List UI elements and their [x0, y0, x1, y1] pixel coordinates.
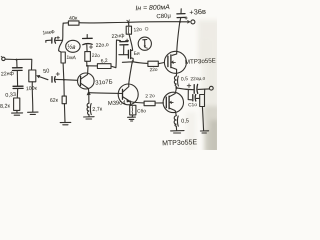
wire mid node horizontal — [122, 62, 147, 64]
output terminal — [209, 86, 213, 90]
ground under lower mosfet — [171, 131, 184, 133]
svg-text:2 2о: 2 2о — [145, 93, 155, 99]
wire zobel R to ground — [202, 107, 203, 131]
wire top rail right — [129, 21, 180, 24]
wire collector node to 6.2 — [87, 65, 98, 67]
svg-text:22о,о: 22о,о — [96, 42, 109, 49]
resistor 2.7k (squiggle) — [87, 103, 103, 115]
potentiometer 100k — [26, 70, 38, 92]
svg-text:Би: Би — [134, 51, 140, 57]
wire top rail left segment — [63, 22, 68, 24]
ground under 560 — [128, 117, 136, 121]
svg-text:+36в: +36в — [189, 7, 206, 17]
svg-text:6,2: 6,2 — [100, 58, 108, 65]
node output junction — [175, 87, 177, 89]
ground under 8.2k — [12, 113, 23, 115]
resistor 8.2k — [0, 98, 20, 110]
capacitor 220.0 bootstrap — [83, 35, 109, 50]
svg-text:Iн = 800мА: Iн = 800мА — [135, 4, 170, 12]
wire output — [177, 88, 194, 90]
svg-text:62к: 62к — [50, 98, 59, 104]
pot wiper arrow — [39, 76, 48, 79]
wire node to 62k — [63, 80, 65, 96]
resistor 220 upper gate — [148, 61, 158, 73]
svg-text:1мкФ: 1мкФ — [42, 29, 55, 36]
driver FET — [128, 34, 140, 62]
node input junction — [16, 59, 18, 61]
wire pot to ground — [31, 82, 34, 112]
svg-text:½в: ½в — [67, 44, 75, 51]
wire Q1 emitter down — [88, 93, 90, 104]
resistor 0.5 upper (squiggle) — [174, 76, 188, 87]
svg-text:МТР3о55Е: МТР3о55Е — [162, 139, 198, 147]
svg-text:22о: 22о — [92, 53, 101, 59]
svg-text:40к: 40к — [69, 16, 78, 22]
zobel drop wire — [188, 90, 191, 100]
wire 220 to upper gate — [158, 63, 164, 64]
resistor 220 (VAS load) — [85, 52, 100, 62]
svg-text:22о: 22о — [149, 67, 158, 73]
wire left drop from 40k — [59, 23, 64, 52]
node Q2 emitter — [129, 101, 131, 103]
svg-text:2,7к: 2,7к — [92, 106, 103, 113]
transistor Q2 M3904 (NPN) — [108, 84, 138, 107]
annotation half-voltage ellipse — [66, 40, 80, 52]
transistor Q1 3107B (PNP) — [64, 66, 113, 96]
wire Q2 emitter to 220 lower — [130, 102, 144, 103]
+36V terminal — [188, 21, 190, 23]
wire Q2 collector up — [129, 62, 133, 84]
wire 2.7k to ground — [88, 115, 90, 117]
MOSFET upper MTP3055E — [164, 22, 216, 76]
wire 220 to cap 220.0 — [86, 45, 88, 52]
input terminal — [1, 56, 2, 57]
wire 0.5 to ground — [175, 126, 177, 130]
capacitor 1uF — [42, 29, 62, 43]
svg-text:С1о: С1о — [188, 102, 197, 108]
resistor 220 lower gate — [144, 93, 155, 106]
svg-text:0,5: 0,5 — [181, 118, 189, 124]
resistor zobel R — [200, 89, 205, 106]
node Q1 emitter junction — [88, 92, 90, 94]
svg-text:1мА: 1мА — [66, 55, 77, 62]
ground under 2.7k — [84, 117, 95, 119]
ground under zobel — [200, 131, 208, 133]
wire Q1 emitter to Q2 base — [89, 92, 119, 95]
node top-120 junction — [128, 21, 130, 23]
resistor R 40k — [68, 16, 79, 26]
MOSFET lower MTP3055E — [162, 88, 198, 147]
capacitor 22n input — [1, 60, 22, 78]
wire 220 to lower gate — [155, 102, 163, 104]
wire 1mA resistor to base node — [62, 63, 65, 80]
svg-text:22нф: 22нф — [1, 71, 15, 78]
resistor 62k — [50, 96, 67, 104]
wire 62k to ground — [63, 104, 66, 123]
wire input to junction — [5, 58, 16, 60]
wire top rail to node — [79, 21, 128, 24]
svg-text:Сбо: Сбо — [137, 108, 146, 114]
resistor 560 — [130, 102, 147, 115]
svg-text:22оμ,о: 22оμ,о — [190, 76, 205, 83]
wire Q1 collector node — [86, 65, 88, 67]
node Q1 base — [63, 79, 65, 81]
wire to +36V terminal — [181, 21, 190, 23]
wire 22n to 0.33 — [16, 71, 18, 86]
wire 8.2k to ground — [16, 110, 18, 112]
resistor 0.5 lower (squiggle) — [174, 116, 189, 127]
capacitor 220.0 output — [187, 76, 206, 94]
svg-text:50: 50 — [43, 68, 50, 75]
svg-text:31о7Б: 31о7Б — [95, 79, 113, 86]
wire 0.33 to 8.2k — [16, 89, 18, 98]
resistor 1mA bias — [61, 52, 77, 63]
svg-text:8,2к: 8,2к — [0, 103, 11, 110]
resistor 6.2 — [97, 58, 111, 69]
svg-text:22нф: 22нф — [111, 33, 125, 40]
capacitor zobel C — [188, 95, 200, 109]
ground under pot — [28, 112, 38, 114]
svg-text:С80μ: С80μ — [156, 13, 171, 20]
svg-text:М39о4: М39о4 — [108, 100, 127, 107]
ground under 62k — [60, 122, 71, 124]
node +36V junction — [179, 21, 181, 23]
node mid junction — [131, 61, 134, 64]
svg-text:0,5: 0,5 — [181, 76, 189, 82]
capacitor 22n gate — [117, 39, 129, 55]
capacitor 0.33 — [5, 86, 23, 99]
wire 560 to ground — [131, 115, 134, 117]
annotation idle current circle — [138, 37, 151, 50]
svg-text:12о: 12о — [133, 27, 142, 34]
wire 6.2 up to gate cap node — [111, 40, 117, 68]
wire junction to pot — [17, 59, 32, 70]
resistor 120 — [126, 22, 142, 34]
driver FET gate wire — [119, 54, 128, 56]
capacitor C8 — [156, 9, 187, 22]
capacitor 1.0 coupling — [43, 68, 64, 82]
wire cap to output terminal — [198, 88, 209, 91]
wire collector node up to 220 — [86, 61, 88, 66]
